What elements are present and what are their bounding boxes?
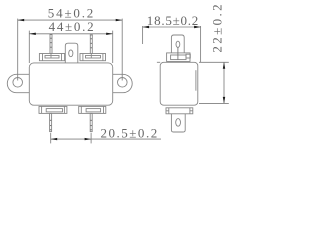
dim 54 extension lines [17, 19, 19, 81]
arrow 20.5 left [51, 138, 58, 140]
arrow 18.5 left [143, 26, 150, 28]
top-right terminal base [80, 54, 106, 61]
svg-text:22±0.2: 22±0.2 [210, 4, 225, 52]
top-right blade terminal [90, 35, 93, 58]
arrow 44 right [106, 33, 113, 35]
dim 44 extension lines [28, 31, 30, 63]
left ear hole [13, 78, 23, 88]
left mounting ear [7, 74, 29, 92]
side top blade [171, 35, 184, 60]
body (side view) [160, 62, 198, 105]
side body top-left stub [157, 61, 160, 63]
arrow 22 top [223, 62, 225, 69]
svg-text:20.5±0.2: 20.5±0.2 [101, 125, 158, 140]
side bottom bracket [166, 108, 193, 114]
side body right ridge [195, 70, 197, 91]
right ear hole [118, 78, 128, 88]
dim 20.5 line [51, 138, 161, 140]
arrow 54 right [116, 19, 123, 21]
arrow 54 left [18, 19, 25, 21]
dim 22 extension lines [199, 61, 229, 63]
dim 54 line [18, 19, 123, 21]
dim 22 line [223, 62, 225, 103]
dim 44 line [29, 33, 112, 35]
right mounting ear [113, 74, 133, 92]
side top bracket [167, 53, 191, 62]
arrow 44 left [29, 33, 36, 35]
top-left blade terminal [50, 34, 53, 58]
svg-text:44±0.2: 44±0.2 [49, 19, 94, 34]
center bracket [65, 43, 78, 63]
bottom-right terminal block [79, 106, 106, 113]
dim 18.5 line [143, 26, 201, 28]
side bottom tab [171, 114, 185, 132]
top-left terminal base [39, 54, 64, 61]
arrow 18.5 right [194, 26, 201, 28]
svg-text:18.5±0.2: 18.5±0.2 [147, 13, 199, 28]
bottom-left terminal block [39, 106, 67, 113]
arrow 22 bottom [223, 97, 225, 104]
dim 20.5 extension lines [50, 133, 52, 144]
center bracket hole [69, 50, 73, 57]
dim 18.5 extension lines [142, 26, 144, 44]
arrow 20.5 right [85, 138, 92, 140]
bottom-right pin [90, 113, 92, 131]
body (front view) [29, 63, 112, 105]
bottom-left pin [50, 113, 52, 131]
